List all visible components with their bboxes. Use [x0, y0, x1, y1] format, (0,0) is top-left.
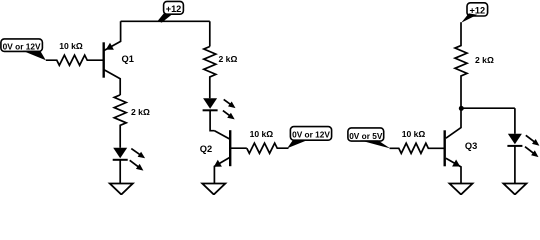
input flag 0V or 12V (Q1 base) — [1, 39, 43, 52]
wire left LED cathode to ground — [119, 160, 121, 184]
transistor Q1 collector lead — [104, 70, 120, 95]
resistor 2 kOhm (Q3 collector) and wire to Q3 — [446, 22, 467, 138]
transistor Q1 emitter lead — [104, 21, 120, 50]
flag tail (Q2 input) — [287, 140, 308, 149]
resistor 2 kOhm (Q1 collector) — [114, 95, 126, 148]
flag tail +12 left — [158, 13, 172, 23]
svg-text:Q3: Q3 — [465, 141, 477, 151]
svg-text:10 kΩ: 10 kΩ — [250, 129, 274, 139]
svg-text:Q2: Q2 — [200, 144, 212, 154]
transistor Q2 collector lead — [215, 131, 230, 139]
wire rail to 2 kOhm resistor — [209, 21, 211, 46]
svg-text:2 kΩ: 2 kΩ — [219, 54, 238, 64]
resistor 10 kOhm (Q3 base) — [390, 143, 444, 153]
wire right LED cathode to ground — [514, 146, 516, 184]
svg-text:0V or 12V: 0V or 12V — [3, 41, 41, 51]
transistor Q3 NPN emitter arrow — [452, 160, 460, 167]
wire LED cathode to Q2 collector — [210, 110, 214, 130]
ground (left LED) — [110, 184, 133, 195]
svg-text:2 kΩ: 2 kΩ — [131, 107, 150, 117]
junction node (Q3 collector / LED) — [459, 106, 464, 111]
svg-text:0V or 12V: 0V or 12V — [292, 130, 330, 140]
svg-text:Q1: Q1 — [122, 54, 134, 64]
resistor 2 kOhm (middle branch) — [204, 47, 216, 99]
flag tail (Q3 input) — [360, 140, 390, 148]
LED (left branch) — [113, 148, 128, 160]
transistor Q2 NPN emitter arrow — [214, 160, 222, 167]
resistor 10 kOhm (Q1 base) — [46, 55, 103, 65]
resistor 10 kOhm (Q2 base) — [247, 143, 289, 153]
power flag +12 (right) — [467, 3, 488, 16]
wire to right LED anode — [514, 108, 516, 134]
svg-text:10 kΩ: 10 kΩ — [59, 41, 83, 51]
ground (Q2 emitter) — [202, 184, 225, 195]
LED emission arrows (middle) — [224, 99, 236, 108]
power flag +12 (left) — [164, 1, 184, 14]
transistor Q2 base lead — [230, 147, 247, 149]
LED emission arrows (left) — [131, 149, 145, 159]
flag tail +12 right — [461, 13, 477, 22]
transistor Q2 emitter lead — [214, 158, 229, 184]
flag tail (Q1 input) — [23, 51, 46, 61]
LED emission arrows (right) — [526, 135, 540, 145]
ground (right LED) — [503, 184, 526, 195]
wire node to right LED — [461, 107, 515, 109]
transistor Q1 base bar — [102, 42, 104, 77]
svg-text:2 kΩ: 2 kΩ — [475, 55, 494, 65]
transistor Q3 emitter lead — [446, 158, 461, 183]
LED (right branch) — [507, 134, 522, 146]
transistor Q2 base bar — [229, 130, 231, 166]
ground (Q3 emitter) — [450, 184, 473, 195]
wire +12 rail — [121, 20, 210, 22]
svg-text:0V or 5V: 0V or 5V — [349, 131, 383, 141]
input flag 0V or 12V (Q2 base) — [290, 127, 331, 141]
svg-text:10 kΩ: 10 kΩ — [402, 129, 426, 139]
svg-text:+12: +12 — [166, 4, 182, 14]
transistor Q1 PNP emitter arrow — [106, 43, 114, 50]
LED (middle branch) — [203, 98, 218, 110]
transistor Q3 base bar — [444, 130, 446, 166]
input flag 0V or 5V (Q3 base) — [348, 128, 384, 141]
